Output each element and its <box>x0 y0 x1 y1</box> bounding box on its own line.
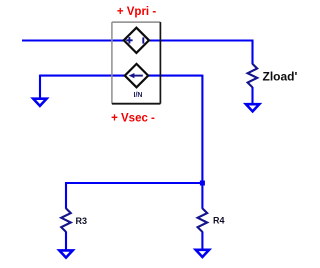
resistor R4 zigzag <box>198 208 208 232</box>
wire Vsec right <box>148 75 202 77</box>
ground (R3) <box>59 250 72 257</box>
transformer model box <box>112 22 160 104</box>
svg-text:R3: R3 <box>76 216 88 226</box>
junction dot <box>200 181 205 186</box>
svg-text:+ Vsec -: + Vsec - <box>111 112 155 124</box>
ground (Zload) <box>246 104 259 111</box>
wire left-ground vertical <box>39 75 41 99</box>
svg-text:+ Vpri -: + Vpri - <box>117 6 156 18</box>
svg-text:R4: R4 <box>213 216 225 226</box>
F1 arrow head <box>129 73 135 78</box>
resistor Zload' zigzag <box>248 64 258 88</box>
ground (R4) <box>196 250 209 257</box>
wire Zload vertical <box>251 40 253 65</box>
dependent source F1 (I/N diamond) <box>125 64 148 87</box>
svg-text:Zload': Zload' <box>263 70 298 84</box>
F1 arrow shaft <box>133 75 143 77</box>
ground (left, 0) <box>33 99 46 106</box>
resistor R3 zigzag <box>61 208 71 232</box>
wire top-right to Zload <box>149 39 253 41</box>
E1 plus sign <box>126 37 132 43</box>
svg-text:I/N: I/N <box>134 92 143 99</box>
wire R3 vertical <box>65 182 67 209</box>
wire R4 ground stem <box>201 232 203 250</box>
E1 minus bar <box>142 37 144 43</box>
wire Vsec left <box>40 75 125 77</box>
wire R3 ground stem <box>65 232 67 251</box>
dependent source E1 (Vpri diamond) <box>124 28 149 53</box>
wire R4 vertical <box>201 182 203 209</box>
wire middle vertical down <box>201 75 203 183</box>
wire Zload ground stem <box>251 87 253 104</box>
wire top-left (Vpri + lead) <box>22 39 125 41</box>
wire bottom horizontal <box>66 182 202 184</box>
